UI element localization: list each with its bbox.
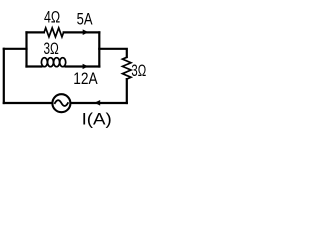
wire bottom left segment to source — [4, 102, 52, 104]
wire bottom branch right segment — [66, 65, 100, 67]
wire left tap from parallel loop to outer left — [4, 48, 27, 50]
inductor L1 3ohm loop 3 — [54, 58, 60, 67]
wire top branch left segment — [27, 31, 44, 33]
resistor R1 4ohm zigzag — [44, 28, 63, 37]
inductor L1 3ohm loop 2 — [48, 58, 54, 67]
svg-text:5A: 5A — [77, 10, 93, 29]
inductor L1 3ohm loop 4 — [60, 58, 66, 67]
wire inner-loop left edge — [25, 32, 27, 66]
inductor L1 3ohm loop 1 — [41, 58, 47, 67]
wire top branch right segment — [64, 31, 100, 33]
wire inner-loop right edge — [98, 32, 100, 66]
svg-text:3Ω: 3Ω — [131, 61, 146, 80]
ac source V1 sine symbol — [55, 100, 68, 106]
arrow I(A) current direction on bottom wire — [94, 100, 100, 106]
arrow 12A current direction on bottom branch — [83, 64, 89, 69]
svg-text:12A: 12A — [73, 69, 98, 88]
svg-text:3Ω: 3Ω — [44, 39, 59, 58]
wire right tap from parallel loop to resistor R2 — [99, 49, 127, 57]
svg-text:4Ω: 4Ω — [44, 8, 60, 27]
resistor R2 3ohm vertical zigzag — [122, 57, 131, 79]
wire bottom right segment from source to right corner — [71, 102, 126, 104]
arrow 5A current direction on top branch — [83, 29, 89, 35]
wire right vertical below resistor R2 — [126, 79, 128, 103]
wire bottom branch left segment — [27, 65, 42, 67]
svg-text:I(A): I(A) — [82, 109, 112, 128]
ac source V1 circle — [52, 94, 70, 112]
wire outer left vertical — [3, 49, 5, 103]
